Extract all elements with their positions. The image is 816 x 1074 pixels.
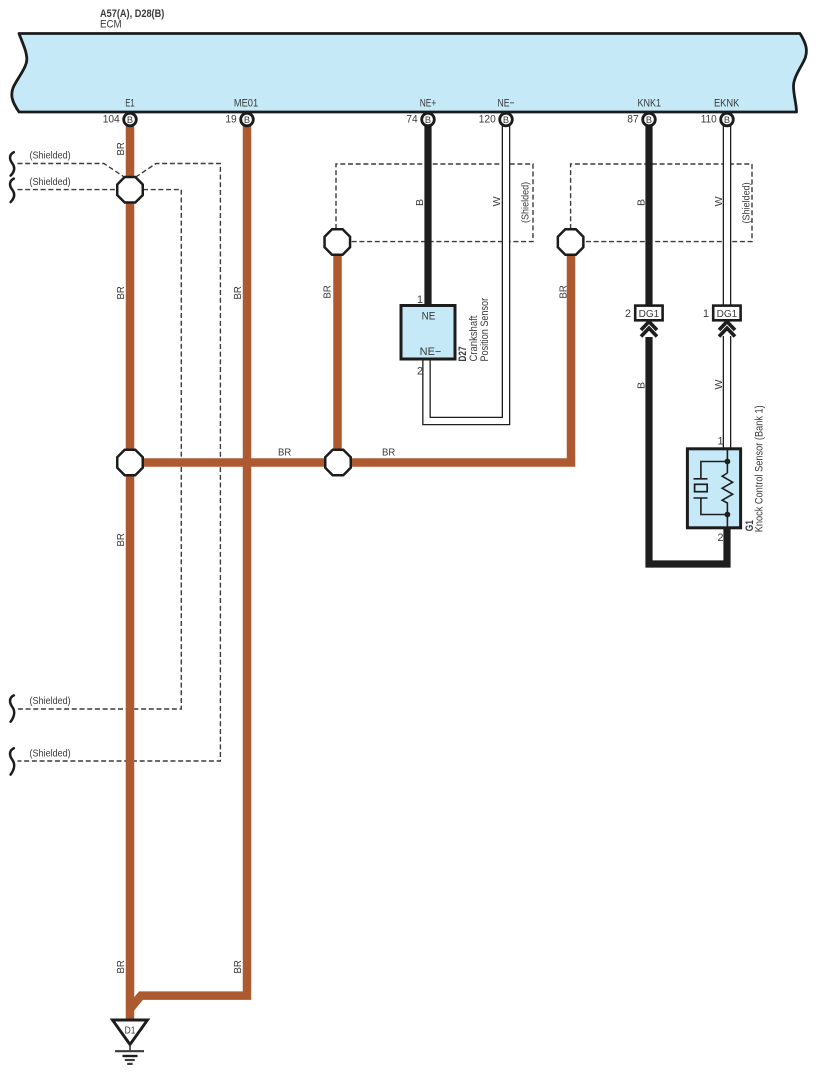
svg-text:B: B	[127, 115, 133, 125]
ground bar 1	[115, 1050, 144, 1052]
ground symbol D1 triangle	[113, 1020, 148, 1045]
G1 internal piezo element branch bottom	[694, 498, 728, 515]
svg-text:B: B	[635, 382, 647, 389]
svg-text:Knock Control Sensor (Bank 1): Knock Control Sensor (Bank 1)	[754, 405, 766, 532]
svg-text:ECM: ECM	[100, 19, 122, 31]
wire BR horizontal run to knock-sensor shield junction	[130, 250, 571, 463]
pin 120 circle B of NE-	[479, 113, 513, 126]
svg-text:BR: BR	[115, 142, 127, 156]
svg-text:DG1: DG1	[639, 309, 660, 320]
svg-text:B: B	[503, 115, 509, 125]
svg-text:87: 87	[627, 114, 638, 126]
shield junction node octagon on E1 wire	[117, 177, 143, 203]
svg-text:B: B	[646, 115, 652, 125]
shield junction node octagon knock sensor	[558, 229, 584, 255]
svg-text:NE−: NE−	[420, 346, 442, 358]
svg-text:(Shielded): (Shielded)	[30, 176, 71, 188]
svg-text:104: 104	[103, 114, 120, 126]
pin 87 circle B of KNK1	[627, 113, 655, 126]
svg-text:(Shielded): (Shielded)	[30, 748, 71, 760]
crankshaft position sensor D27 box	[401, 306, 455, 360]
svg-text:DG1: DG1	[717, 309, 738, 320]
wire B from KNK1 to connector DG1	[645, 124, 652, 307]
svg-text:B: B	[425, 115, 431, 125]
svg-text:W: W	[491, 196, 503, 206]
shield dashed box around knock sensor wires	[571, 164, 752, 242]
connector chevrons on KNK1 wire	[641, 322, 657, 337]
pin 110 circle B of EKNK	[701, 113, 734, 126]
ground bar 4	[127, 1063, 132, 1065]
svg-text:BR: BR	[115, 533, 127, 547]
svg-text:120: 120	[479, 114, 496, 126]
pin 19 circle B of ME01	[225, 113, 253, 126]
ECM connector block A57(A), D28(B)	[12, 34, 807, 113]
G1 piezo crystal rectangle	[695, 484, 708, 491]
svg-text:D1: D1	[125, 1025, 136, 1037]
svg-text:2: 2	[717, 532, 723, 544]
svg-text:2: 2	[417, 366, 423, 378]
svg-text:NE: NE	[422, 311, 436, 323]
pin 74 circle B of NE+	[406, 113, 434, 126]
connector DG1 on EKNK wire, pin 1	[703, 306, 741, 321]
wire BR from ME01 joining E1 wire at bottom	[130, 124, 248, 1010]
pin 104 circle B of E1	[103, 113, 137, 126]
svg-text:BR: BR	[232, 286, 244, 300]
svg-text:B: B	[724, 115, 730, 125]
svg-text:Position Sensor: Position Sensor	[479, 298, 491, 362]
svg-text:110: 110	[701, 114, 717, 126]
svg-text:NE−: NE−	[498, 98, 515, 110]
wire W from DG1 to knock sensor pin 1	[723, 336, 732, 450]
G1 internal lead to pin 2	[726, 515, 728, 528]
svg-text:74: 74	[406, 114, 417, 126]
knock control sensor G1 box	[687, 449, 740, 528]
svg-text:E1: E1	[125, 98, 135, 110]
svg-text:BR: BR	[382, 447, 396, 459]
brace for (Shielded) label 4	[10, 748, 14, 774]
brace for (Shielded) label 3	[10, 695, 14, 721]
wire BR from E1 to ground D1	[126, 124, 135, 1021]
svg-text:(Shielded): (Shielded)	[30, 150, 71, 162]
svg-text:BR: BR	[115, 286, 127, 300]
junction node octagon on horizontal BR run at crank drain	[325, 450, 351, 476]
svg-text:19: 19	[225, 114, 236, 126]
svg-text:1: 1	[417, 294, 423, 306]
svg-text:(Shielded): (Shielded)	[740, 182, 752, 223]
ground bar 3	[125, 1059, 135, 1061]
wire W from NE- looping to crank sensor pin 2	[427, 124, 507, 421]
G1 internal piezo element branch top	[694, 462, 728, 479]
G1 internal resistor	[722, 473, 732, 515]
G1 junction dot top	[725, 459, 731, 465]
connector DG1 on KNK1 wire, pin 2	[625, 306, 663, 321]
wire B from NE+ to crank sensor pin 1	[424, 124, 431, 307]
svg-text:2: 2	[625, 308, 631, 320]
shield dashed box around crankshaft sensor wires	[336, 164, 533, 242]
junction node octagon on E1 wire at horizontal BR run	[117, 450, 143, 476]
connector chevrons on EKNK wire	[719, 322, 735, 337]
svg-text:B: B	[244, 115, 250, 125]
brace for (Shielded) label 1	[10, 152, 14, 175]
svg-text:BR: BR	[558, 285, 570, 299]
svg-text:BR: BR	[322, 285, 334, 299]
svg-text:EKNK: EKNK	[714, 98, 740, 110]
svg-text:D27: D27	[457, 347, 469, 362]
svg-text:BR: BR	[232, 960, 244, 974]
svg-text:BR: BR	[115, 960, 127, 974]
shield junction node octagon crank sensor	[325, 229, 351, 255]
wire BR shield drain from crank-sensor shield junction	[333, 250, 342, 463]
shield dashed outline A (outer, E1)	[18, 164, 221, 762]
wire W from EKNK to connector DG1	[723, 124, 732, 307]
svg-text:BR: BR	[278, 447, 292, 459]
ground stub	[129, 1045, 131, 1052]
brace for (Shielded) label 2	[10, 179, 14, 202]
svg-text:B: B	[635, 199, 647, 206]
svg-text:(Shielded): (Shielded)	[520, 182, 532, 223]
svg-text:1: 1	[703, 308, 709, 320]
svg-text:B: B	[414, 199, 426, 206]
ground bar 2	[123, 1055, 138, 1057]
svg-text:1: 1	[717, 436, 723, 448]
wire B from DG1 looping to knock sensor pin 2	[649, 337, 727, 564]
G1 internal lead from pin 1	[726, 450, 728, 473]
svg-text:W: W	[713, 196, 725, 206]
shield dashed outline B (inner, E1)	[18, 190, 182, 709]
svg-text:W: W	[713, 380, 725, 390]
G1 junction dot bottom	[725, 512, 731, 518]
svg-text:(Shielded): (Shielded)	[30, 695, 71, 707]
svg-text:NE+: NE+	[420, 98, 437, 110]
svg-text:KNK1: KNK1	[638, 98, 662, 110]
svg-text:ME01: ME01	[234, 98, 258, 110]
